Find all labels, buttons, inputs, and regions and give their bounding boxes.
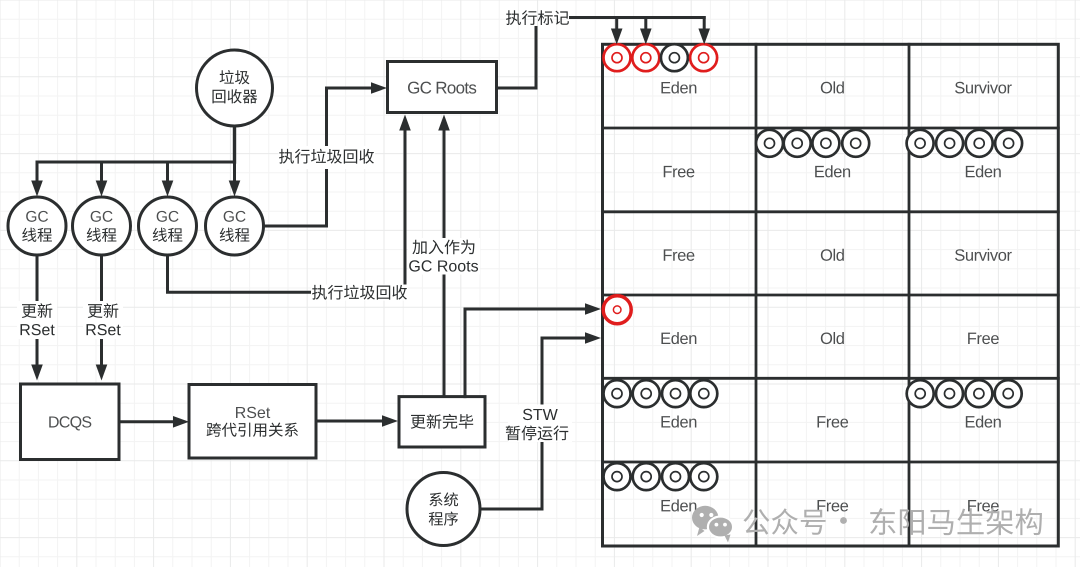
node cell label Survivor r1c3 bbox=[955, 81, 1012, 93]
node box 更新完毕 bbox=[399, 397, 485, 447]
node cell label Free r5c2 bbox=[817, 416, 848, 428]
node cell label Eden r2c3 bbox=[966, 165, 1001, 177]
label 执行标记 bbox=[506, 10, 569, 25]
wire thread distribution bus bbox=[37, 161, 235, 164]
node object marker row5-eden #4 bbox=[690, 380, 717, 407]
node object marker row5-eden #2 bbox=[633, 380, 660, 407]
node object marker row5-eden #3 bbox=[662, 380, 689, 407]
node cell label Old r3c2 bbox=[821, 249, 844, 261]
node cell label Eden r6c1 bbox=[661, 499, 696, 511]
label 加入作为 GC Roots bbox=[408, 238, 480, 275]
wire 系统程序 to region row4b bbox=[480, 338, 586, 509]
node object marker row5-col3 #4 bbox=[995, 380, 1022, 407]
wire marking drop x=704 bbox=[703, 18, 706, 31]
node object marker row2-eden #4 bbox=[842, 130, 869, 157]
node object marker row2-survivor-eden #4 bbox=[995, 130, 1022, 157]
wire 执行标记 branch bus bbox=[571, 16, 705, 19]
node object marker row1 #3 bbox=[661, 44, 688, 71]
wire bus drop x=101 bbox=[100, 162, 103, 182]
node object marker row6-eden #4 bbox=[690, 463, 717, 490]
node circle GC线程 #2 bbox=[73, 197, 131, 255]
node box DCQS bbox=[21, 384, 120, 460]
node circle 垃圾回收器 bbox=[197, 50, 273, 126]
node object marker row2-survivor-eden #2 bbox=[936, 130, 963, 157]
label 执行垃圾回收 upper bbox=[279, 146, 376, 169]
node object marker row4 red bbox=[603, 296, 631, 324]
watermark wechat icon bbox=[692, 506, 733, 543]
node object marker row6-eden #3 bbox=[662, 463, 689, 490]
node object marker row2-eden #2 bbox=[784, 130, 811, 157]
wire bus drop x=167 bbox=[166, 162, 169, 182]
node object marker row5-col3 #2 bbox=[936, 380, 963, 407]
wire marking drop x=617 bbox=[615, 18, 618, 31]
watermark text 公众号·东阳马生架构 bbox=[743, 508, 1042, 535]
node cell label Eden r1c1 bbox=[661, 81, 696, 93]
wire 更新完毕 to region row4 bbox=[465, 309, 586, 397]
node object marker row5-col3 #1 bbox=[907, 380, 934, 407]
node object marker row2-survivor-eden #3 bbox=[966, 130, 993, 157]
wire DCQS to RSet bbox=[120, 420, 174, 423]
node object marker row5-eden #1 bbox=[604, 380, 631, 407]
node object marker row1 #4 bbox=[690, 44, 717, 71]
node cell label Eden r5c1 bbox=[661, 416, 696, 428]
node cell label Old r1c2 bbox=[821, 81, 844, 93]
wire 更新完毕 to GC Roots bottom bbox=[443, 128, 446, 397]
label 执行垃圾回收 lower bbox=[311, 285, 408, 301]
node heap-table outer border bbox=[603, 44, 1059, 546]
wire GC线程 down to DCQS x=101 bbox=[100, 255, 103, 365]
node object marker row6-eden #1 bbox=[604, 463, 631, 490]
node cell label Free r3c1 bbox=[664, 249, 695, 261]
node circle GC线程 #3 bbox=[139, 197, 197, 255]
wire bus drop x=37 bbox=[36, 162, 39, 182]
wire GC线程3 to GC Roots bottom bbox=[168, 128, 406, 292]
node object marker row1 #2 bbox=[632, 44, 659, 71]
node object marker row1 #1 bbox=[604, 44, 631, 71]
node object marker row2-eden #1 bbox=[756, 130, 783, 157]
wire heap-table cell borders bbox=[755, 44, 758, 546]
wire marking drop x=646 bbox=[644, 18, 647, 31]
node box GC Roots bbox=[388, 62, 497, 113]
wire GC线程 down to DCQS x=37 bbox=[36, 255, 39, 365]
node cell label Old r4c2 bbox=[821, 332, 844, 344]
wire GC线程4 to GC Roots left bbox=[264, 88, 373, 226]
wire bus drop x=234 bbox=[233, 162, 236, 182]
node cell label Eden r2c2 bbox=[815, 165, 850, 177]
node cell label Survivor r3c3 bbox=[955, 249, 1012, 261]
node circle GC线程 #1 bbox=[8, 197, 66, 255]
label 更新RSet #1 bbox=[17, 301, 57, 339]
node cell label Eden r5c3 bbox=[966, 416, 1001, 428]
node circle GC线程 #4 bbox=[206, 197, 264, 255]
node object marker row6-eden #2 bbox=[633, 463, 660, 490]
wire GC Roots right to 执行标记 bbox=[497, 28, 537, 89]
node circle 系统程序 bbox=[407, 473, 480, 546]
node cell label Free r6c3 bbox=[968, 500, 999, 512]
node object marker row2-eden #3 bbox=[812, 130, 839, 157]
node object marker row5-col3 #3 bbox=[965, 380, 992, 407]
node box RSet 跨代引用关系 bbox=[189, 385, 316, 459]
wire RSet to 更新完毕 bbox=[316, 420, 383, 423]
label STW 暂停运行 bbox=[508, 405, 572, 443]
node cell label Free r6c2 bbox=[817, 500, 848, 512]
node cell label Free r2c1 bbox=[664, 166, 695, 178]
wire collector to thread-bus bbox=[233, 126, 236, 162]
node cell label Free r4c3 bbox=[968, 333, 999, 345]
label 更新RSet #2 bbox=[83, 301, 123, 339]
node object marker row2-survivor-eden #1 bbox=[907, 130, 934, 157]
node cell label Eden r4c1 bbox=[661, 332, 696, 344]
